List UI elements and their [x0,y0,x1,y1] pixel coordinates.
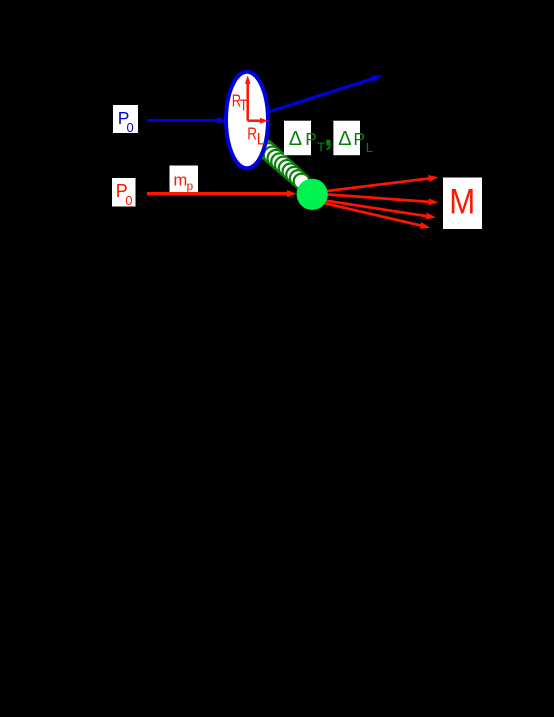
svg-text:Δ: Δ [289,128,302,150]
svg-text:0: 0 [127,120,134,135]
svg-text:L: L [257,130,266,149]
svg-text:P: P [353,129,365,149]
svg-text:L: L [366,140,373,155]
svg-text:T: T [317,140,325,155]
svg-text:m: m [174,172,188,190]
svg-text:Δ: Δ [338,128,351,150]
svg-text:M: M [449,183,475,222]
svg-text:0: 0 [125,193,132,208]
svg-text:P: P [305,129,317,149]
svg-text:T: T [240,97,248,115]
svg-text:R: R [247,125,257,144]
svg-text:p: p [187,179,194,193]
